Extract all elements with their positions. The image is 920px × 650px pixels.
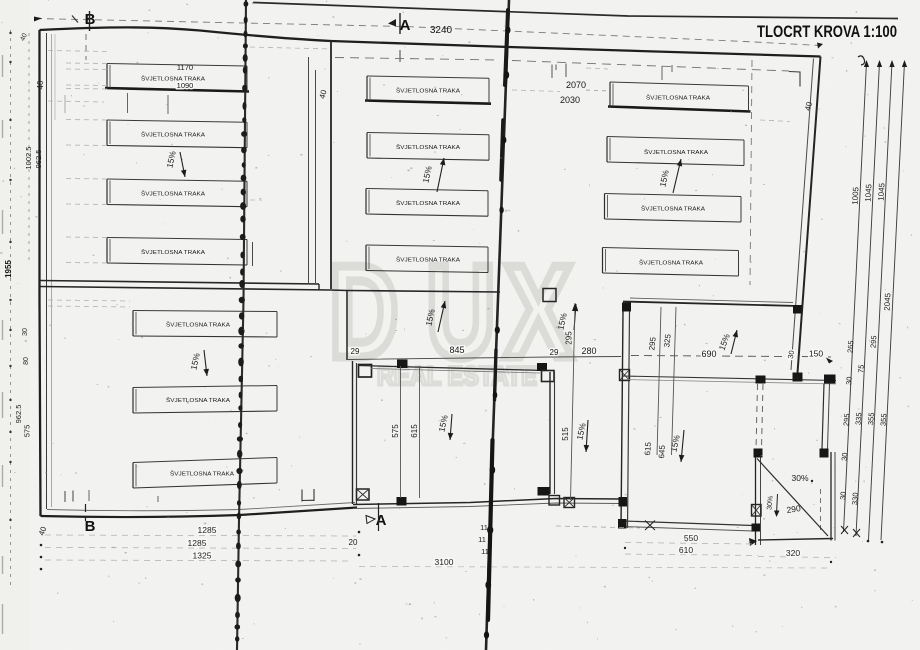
svg-text:295: 295 bbox=[868, 335, 878, 348]
middle hall skylight bar row2 bbox=[367, 133, 489, 135]
middle hall skylight bar row1 bbox=[367, 76, 489, 78]
X arrow mark on bottom wall bbox=[645, 521, 655, 531]
faint guide dash rows bbox=[48, 51, 107, 52]
right annex inner top wall bbox=[623, 376, 836, 381]
section line A bottom tick bbox=[378, 503, 380, 531]
right hall inner dashed vertical bbox=[750, 60, 752, 285]
X column at x565 bottom bbox=[564, 498, 575, 508]
left end dots of bottom dims bbox=[40, 544, 43, 547]
svg-text:962.5: 962.5 bbox=[34, 150, 43, 169]
terrace black column bbox=[752, 524, 761, 532]
svg-text:295: 295 bbox=[565, 331, 574, 345]
section line A top tick bbox=[399, 13, 401, 34]
svg-text:335: 335 bbox=[853, 412, 863, 425]
svg-text:29: 29 bbox=[351, 347, 360, 356]
fold crease right bbox=[486, 0, 509, 650]
svg-text:575: 575 bbox=[23, 425, 32, 438]
tick x89 bottom bbox=[88, 490, 90, 501]
left dim line inner bbox=[28, 33, 30, 260]
svg-text:30: 30 bbox=[840, 452, 850, 461]
black column right end top wall bbox=[537, 363, 547, 371]
section line B dashes bbox=[85, 34, 87, 60]
bar stub right of crease bbox=[252, 242, 254, 266]
bottom dim row3 1325 bbox=[45, 560, 352, 561]
svg-text:355: 355 bbox=[878, 413, 888, 426]
svg-text:845: 845 bbox=[449, 345, 464, 355]
eave line step bracket bbox=[789, 72, 800, 87]
svg-text:515: 515 bbox=[561, 427, 570, 441]
svg-text:A: A bbox=[400, 17, 411, 34]
middle annex bottom-left X column bbox=[357, 489, 370, 500]
left hall skylight bar row4 bbox=[107, 238, 247, 240]
open square node above dim line bbox=[543, 289, 556, 302]
svg-text:320: 320 bbox=[786, 548, 800, 558]
svg-text:265: 265 bbox=[845, 340, 855, 353]
left hall skylight bar row3 bbox=[107, 179, 247, 181]
left wall thin line 3 bbox=[54, 34, 56, 120]
section line A dashes below wall bbox=[399, 50, 401, 62]
terrace arrow mark bottom bbox=[749, 538, 757, 546]
middle annex top-left column bbox=[359, 365, 372, 378]
svg-text:ŠVJETLOSNA TRAKA: ŠVJETLOSNA TRAKA bbox=[639, 260, 703, 267]
terrace left wall bbox=[755, 458, 757, 546]
svg-text:550: 550 bbox=[684, 533, 698, 543]
solid verticals x826 room edge bbox=[822, 384, 824, 449]
svg-text:3100: 3100 bbox=[435, 557, 454, 567]
section line B top tick bbox=[89, 11, 91, 31]
svg-text:1005: 1005 bbox=[851, 186, 861, 205]
svg-text:290: 290 bbox=[786, 503, 802, 515]
bottom dim row2 1285 bbox=[45, 548, 356, 549]
bottom dim row4 3100 bbox=[359, 567, 831, 569]
black column x760 top wall bbox=[756, 376, 766, 384]
svg-text:30: 30 bbox=[22, 328, 29, 336]
svg-text:30: 30 bbox=[786, 350, 796, 360]
left hall lower skylight bar row6 bbox=[133, 386, 277, 388]
section arrow A top bbox=[388, 19, 396, 27]
svg-text:ŠVJETLOSNA TRAKA: ŠVJETLOSNA TRAKA bbox=[641, 206, 705, 213]
roof tick marks between row1 and row2 bbox=[127, 93, 129, 113]
svg-text:1170: 1170 bbox=[177, 63, 193, 72]
dim vline 515/295 bbox=[571, 303, 576, 500]
middle annex left wall bbox=[352, 361, 354, 504]
bracket marks right hall top bbox=[662, 65, 672, 80]
left dim dots bbox=[9, 32, 11, 34]
middle annex top wall bbox=[358, 366, 545, 371]
svg-text:30: 30 bbox=[844, 376, 854, 385]
right dim line 4 bbox=[881, 62, 905, 540]
dim vline 645 right annex bbox=[672, 307, 677, 455]
svg-text:325: 325 bbox=[662, 333, 672, 348]
terrace roof diagonal bbox=[757, 459, 828, 537]
terrace right wall bbox=[830, 452, 832, 541]
left hall skylight bar row2 bbox=[107, 120, 247, 122]
middle hall skylight bar row4 bbox=[366, 245, 488, 247]
svg-text:1045: 1045 bbox=[864, 183, 874, 202]
svg-text:1955: 1955 bbox=[4, 260, 13, 278]
faint vertical dashes top-left bbox=[64, 95, 66, 113]
dim arrow left bbox=[34, 17, 42, 22]
svg-text:615: 615 bbox=[410, 424, 419, 438]
svg-text:ŠVJETLOSNA TRAKA: ŠVJETLOSNA TRAKA bbox=[170, 471, 234, 478]
svg-text:30: 30 bbox=[838, 491, 848, 500]
right wall inner bbox=[791, 59, 814, 371]
svg-text:1285: 1285 bbox=[188, 538, 207, 548]
middle hall bottom edge bbox=[347, 291, 500, 293]
left wall inner line bbox=[46, 33, 48, 509]
tick x158 bottom bbox=[157, 496, 159, 502]
svg-text:TLOCRT KROVA 1:100: TLOCRT KROVA 1:100 bbox=[757, 22, 897, 41]
dim vline 575 bbox=[400, 366, 402, 498]
svg-text:575: 575 bbox=[391, 424, 400, 438]
right annex left wall bbox=[621, 311, 623, 528]
dim tick x75 bbox=[72, 16, 78, 23]
right hall inner dashed eave line bbox=[335, 58, 789, 72]
right hall bottom edge bbox=[623, 302, 798, 307]
dashed segment y527 right of annex bbox=[556, 526, 640, 528]
terrace bottom wall bbox=[758, 539, 833, 541]
left hall skylight bar row1 (with 1170/1090 dims) bbox=[107, 64, 247, 67]
left wall outer bbox=[40, 30, 41, 516]
svg-text:A: A bbox=[376, 512, 387, 529]
svg-text:280: 280 bbox=[581, 346, 596, 356]
black column x796 top wall bbox=[793, 373, 803, 382]
svg-text:30%: 30% bbox=[766, 496, 774, 511]
svg-text:ŠVJETLOSNA TRAKA: ŠVJETLOSNA TRAKA bbox=[646, 95, 710, 102]
svg-text:20: 20 bbox=[349, 538, 358, 547]
svg-text:ŠVJETLOSNA TRAKA: ŠVJETLOSNA TRAKA bbox=[141, 75, 205, 82]
middle hall inner wall line b bbox=[315, 70, 317, 283]
terrace inner dashed vline bbox=[820, 489, 822, 531]
middle hall inner wall line a bbox=[308, 57, 310, 283]
black column x824 mid bbox=[820, 449, 829, 458]
middle annex right-bottom column bbox=[538, 487, 550, 496]
svg-text:1002.5: 1002.5 bbox=[24, 147, 33, 170]
svg-text:645: 645 bbox=[657, 444, 667, 458]
black column on bottom wall bbox=[397, 497, 407, 506]
svg-text:295: 295 bbox=[841, 413, 851, 426]
upper sheet edge line bbox=[253, 3, 898, 19]
dividing wall upper line bbox=[40, 281, 319, 285]
svg-text:ŠVJETLOSNA TRAKA: ŠVJETLOSNA TRAKA bbox=[396, 88, 460, 95]
svg-text:330: 330 bbox=[850, 492, 860, 505]
left margin shading bbox=[0, 0, 30, 650]
black column x829 top wall bbox=[824, 375, 836, 384]
arrowhead up on x575 line bbox=[572, 303, 578, 311]
dividing wall step bbox=[319, 284, 347, 291]
dots at x359 bbox=[358, 531, 361, 534]
svg-text:150: 150 bbox=[809, 349, 823, 359]
svg-text:ŠVJETLOSNA TRAKA: ŠVJETLOSNA TRAKA bbox=[166, 397, 230, 404]
crease right blobs bbox=[505, 26, 510, 34]
middle annex neck wall bbox=[346, 291, 348, 361]
svg-text:ŠVJETLOSNA TRAKA: ŠVJETLOSNA TRAKA bbox=[141, 132, 205, 139]
black column x757 mid bbox=[754, 449, 763, 458]
right dim line 3 bbox=[869, 62, 893, 540]
fold crease right dark segments bbox=[505, 10, 508, 85]
bottom dim 320 bbox=[758, 557, 836, 558]
svg-text:ŠVJETLOSNA TRAKA: ŠVJETLOSNA TRAKA bbox=[141, 191, 205, 198]
dim vline 615 right annex bbox=[657, 307, 661, 455]
svg-text:75: 75 bbox=[856, 364, 866, 373]
main top wall edge bbox=[40, 27, 821, 56]
black columns bottom of left wall bbox=[619, 497, 628, 507]
svg-text:11: 11 bbox=[478, 535, 486, 544]
svg-text:2070: 2070 bbox=[566, 80, 586, 90]
svg-text:2030: 2030 bbox=[560, 95, 580, 105]
middle hall skylight bar row3 bbox=[366, 189, 488, 191]
svg-text:ŠVJETLOSNA TRAKA: ŠVJETLOSNA TRAKA bbox=[396, 200, 460, 207]
right dim line 1 bbox=[844, 62, 867, 532]
svg-text:ŠVJETLOSNA TRAKA: ŠVJETLOSNA TRAKA bbox=[644, 149, 708, 156]
svg-text:610: 610 bbox=[679, 545, 693, 555]
svg-text:ŠVJETLOSNA TRAKA: ŠVJETLOSNA TRAKA bbox=[166, 322, 230, 329]
dim line 845/280 bbox=[348, 357, 621, 360]
svg-text:615: 615 bbox=[643, 441, 653, 455]
svg-text:295: 295 bbox=[647, 336, 657, 351]
svg-text:80: 80 bbox=[23, 357, 30, 365]
dividing wall lower line bbox=[40, 287, 330, 291]
dashed verticals below x760 column bbox=[756, 384, 758, 449]
bottom wall outer bbox=[41, 508, 358, 518]
right hall skylight bar row3 bbox=[605, 194, 742, 197]
svg-text:690: 690 bbox=[701, 349, 716, 359]
section line B bottom tick bbox=[85, 504, 87, 521]
black column left end right hall bottom bbox=[622, 303, 631, 312]
left hall lower skylight bar row7 bbox=[133, 458, 277, 463]
dashed guide under 2070 bbox=[586, 90, 609, 91]
svg-text:1285: 1285 bbox=[198, 525, 217, 535]
right hall skylight bar row2 bbox=[607, 137, 744, 141]
svg-text:3240: 3240 bbox=[430, 25, 453, 36]
black column right end right hall bottom bbox=[793, 305, 802, 314]
section arrow A bottom bbox=[366, 516, 375, 524]
arrow at 150 end bbox=[826, 358, 833, 364]
svg-text:1045: 1045 bbox=[877, 182, 887, 201]
open column at x550 bottom bbox=[549, 496, 560, 506]
svg-text:962.5: 962.5 bbox=[14, 405, 23, 424]
left wall thin line 2 bbox=[51, 34, 53, 507]
svg-text:B: B bbox=[85, 518, 96, 535]
svg-text:29: 29 bbox=[550, 348, 559, 357]
fold crease left bbox=[237, 0, 246, 650]
opening ticks on bottom wall x300 bbox=[302, 489, 314, 502]
right hall skylight bar row1 bbox=[610, 82, 749, 86]
right wall outer bbox=[798, 57, 821, 374]
right dim line 2 bbox=[856, 62, 880, 536]
dots bottom right bbox=[624, 547, 626, 549]
bottom dim 610 bbox=[625, 554, 758, 556]
terrace X column bbox=[752, 505, 762, 517]
svg-text:11: 11 bbox=[480, 523, 488, 532]
svg-text:1325: 1325 bbox=[193, 551, 212, 561]
middle annex right-top open column bbox=[542, 371, 555, 382]
svg-text:1090: 1090 bbox=[177, 81, 194, 90]
overall dim line 3240 bbox=[35, 19, 820, 46]
middle annex right wall bbox=[549, 372, 551, 494]
svg-text:2045: 2045 bbox=[883, 292, 893, 311]
svg-text:ŠVJETLOSNA TRAKA: ŠVJETLOSNA TRAKA bbox=[396, 257, 460, 264]
svg-text:30%: 30% bbox=[791, 473, 808, 483]
right hall skylight bar row4 bbox=[603, 248, 739, 251]
svg-text:ŠVJETLOSNA TRAKA: ŠVJETLOSNA TRAKA bbox=[396, 144, 460, 151]
X column on left wall bbox=[620, 370, 630, 381]
dim arrow at right corner bbox=[817, 43, 823, 49]
bottom dim 550 bbox=[625, 543, 753, 545]
svg-text:ŠVJETLOSNA TRAKA: ŠVJETLOSNA TRAKA bbox=[141, 249, 205, 256]
scribble mark near dim tops bbox=[858, 56, 865, 65]
middle hall left wall bbox=[330, 41, 332, 289]
svg-text:40: 40 bbox=[36, 80, 45, 89]
opening ticks on bottom wall x65 bbox=[65, 491, 73, 503]
bottom dim row1 1285 bbox=[45, 535, 356, 536]
bracket marks near 2070 bbox=[552, 64, 566, 79]
dim line 690/150 dashed bbox=[631, 356, 831, 358]
right dim bottom X marks bbox=[841, 526, 848, 534]
black column on top wall bbox=[397, 360, 408, 369]
svg-text:355: 355 bbox=[866, 412, 876, 425]
left hall lower skylight bar row5 bbox=[133, 311, 277, 312]
bottom wall inner line bbox=[47, 503, 355, 511]
right dim top arrows bbox=[864, 60, 869, 67]
left dim line outer bbox=[10, 30, 12, 585]
right annex bottom wall bbox=[624, 521, 753, 526]
middle annex bottom wall bbox=[353, 499, 621, 505]
dim vline 615 bbox=[419, 366, 421, 498]
left edge scan marks bbox=[2, 55, 4, 77]
